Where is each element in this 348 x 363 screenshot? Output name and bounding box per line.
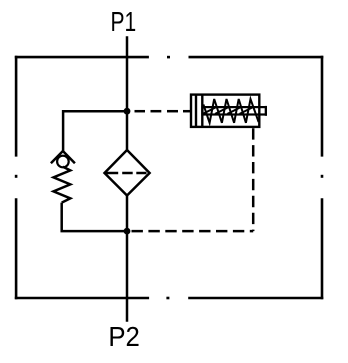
enclosure boundary left edge [15,56,18,299]
node lower junction [124,228,131,235]
filter element dashed line [106,172,147,175]
indicator cylinder body [191,95,259,127]
node upper junction [124,108,131,115]
enclosure boundary top edge [15,56,324,59]
svg-text:P2: P2 [108,321,140,352]
pilot line lower horizontal (dashed) [132,230,254,233]
enclosure boundary bottom edge [15,297,324,300]
wire upper branch to check valve [63,111,127,151]
check valve spring [54,167,71,203]
port label P2 [108,321,140,352]
pilot line upper (dashed to indicator piston) [135,110,192,113]
wire main vertical P1 to P2 [126,36,129,322]
port label P1 [111,6,137,37]
indicator spring [203,99,259,123]
indicator piston rod [203,107,266,114]
check valve seat [51,151,75,163]
svg-text:P1: P1 [111,6,137,37]
check valve ball [57,156,69,168]
enclosure boundary right edge [321,56,324,299]
filter F1 diamond [105,150,150,196]
indicator piston (double line) [196,95,202,127]
pilot line lower vertical (dashed) [252,128,255,231]
wire lower branch from spring to junction [62,203,127,232]
